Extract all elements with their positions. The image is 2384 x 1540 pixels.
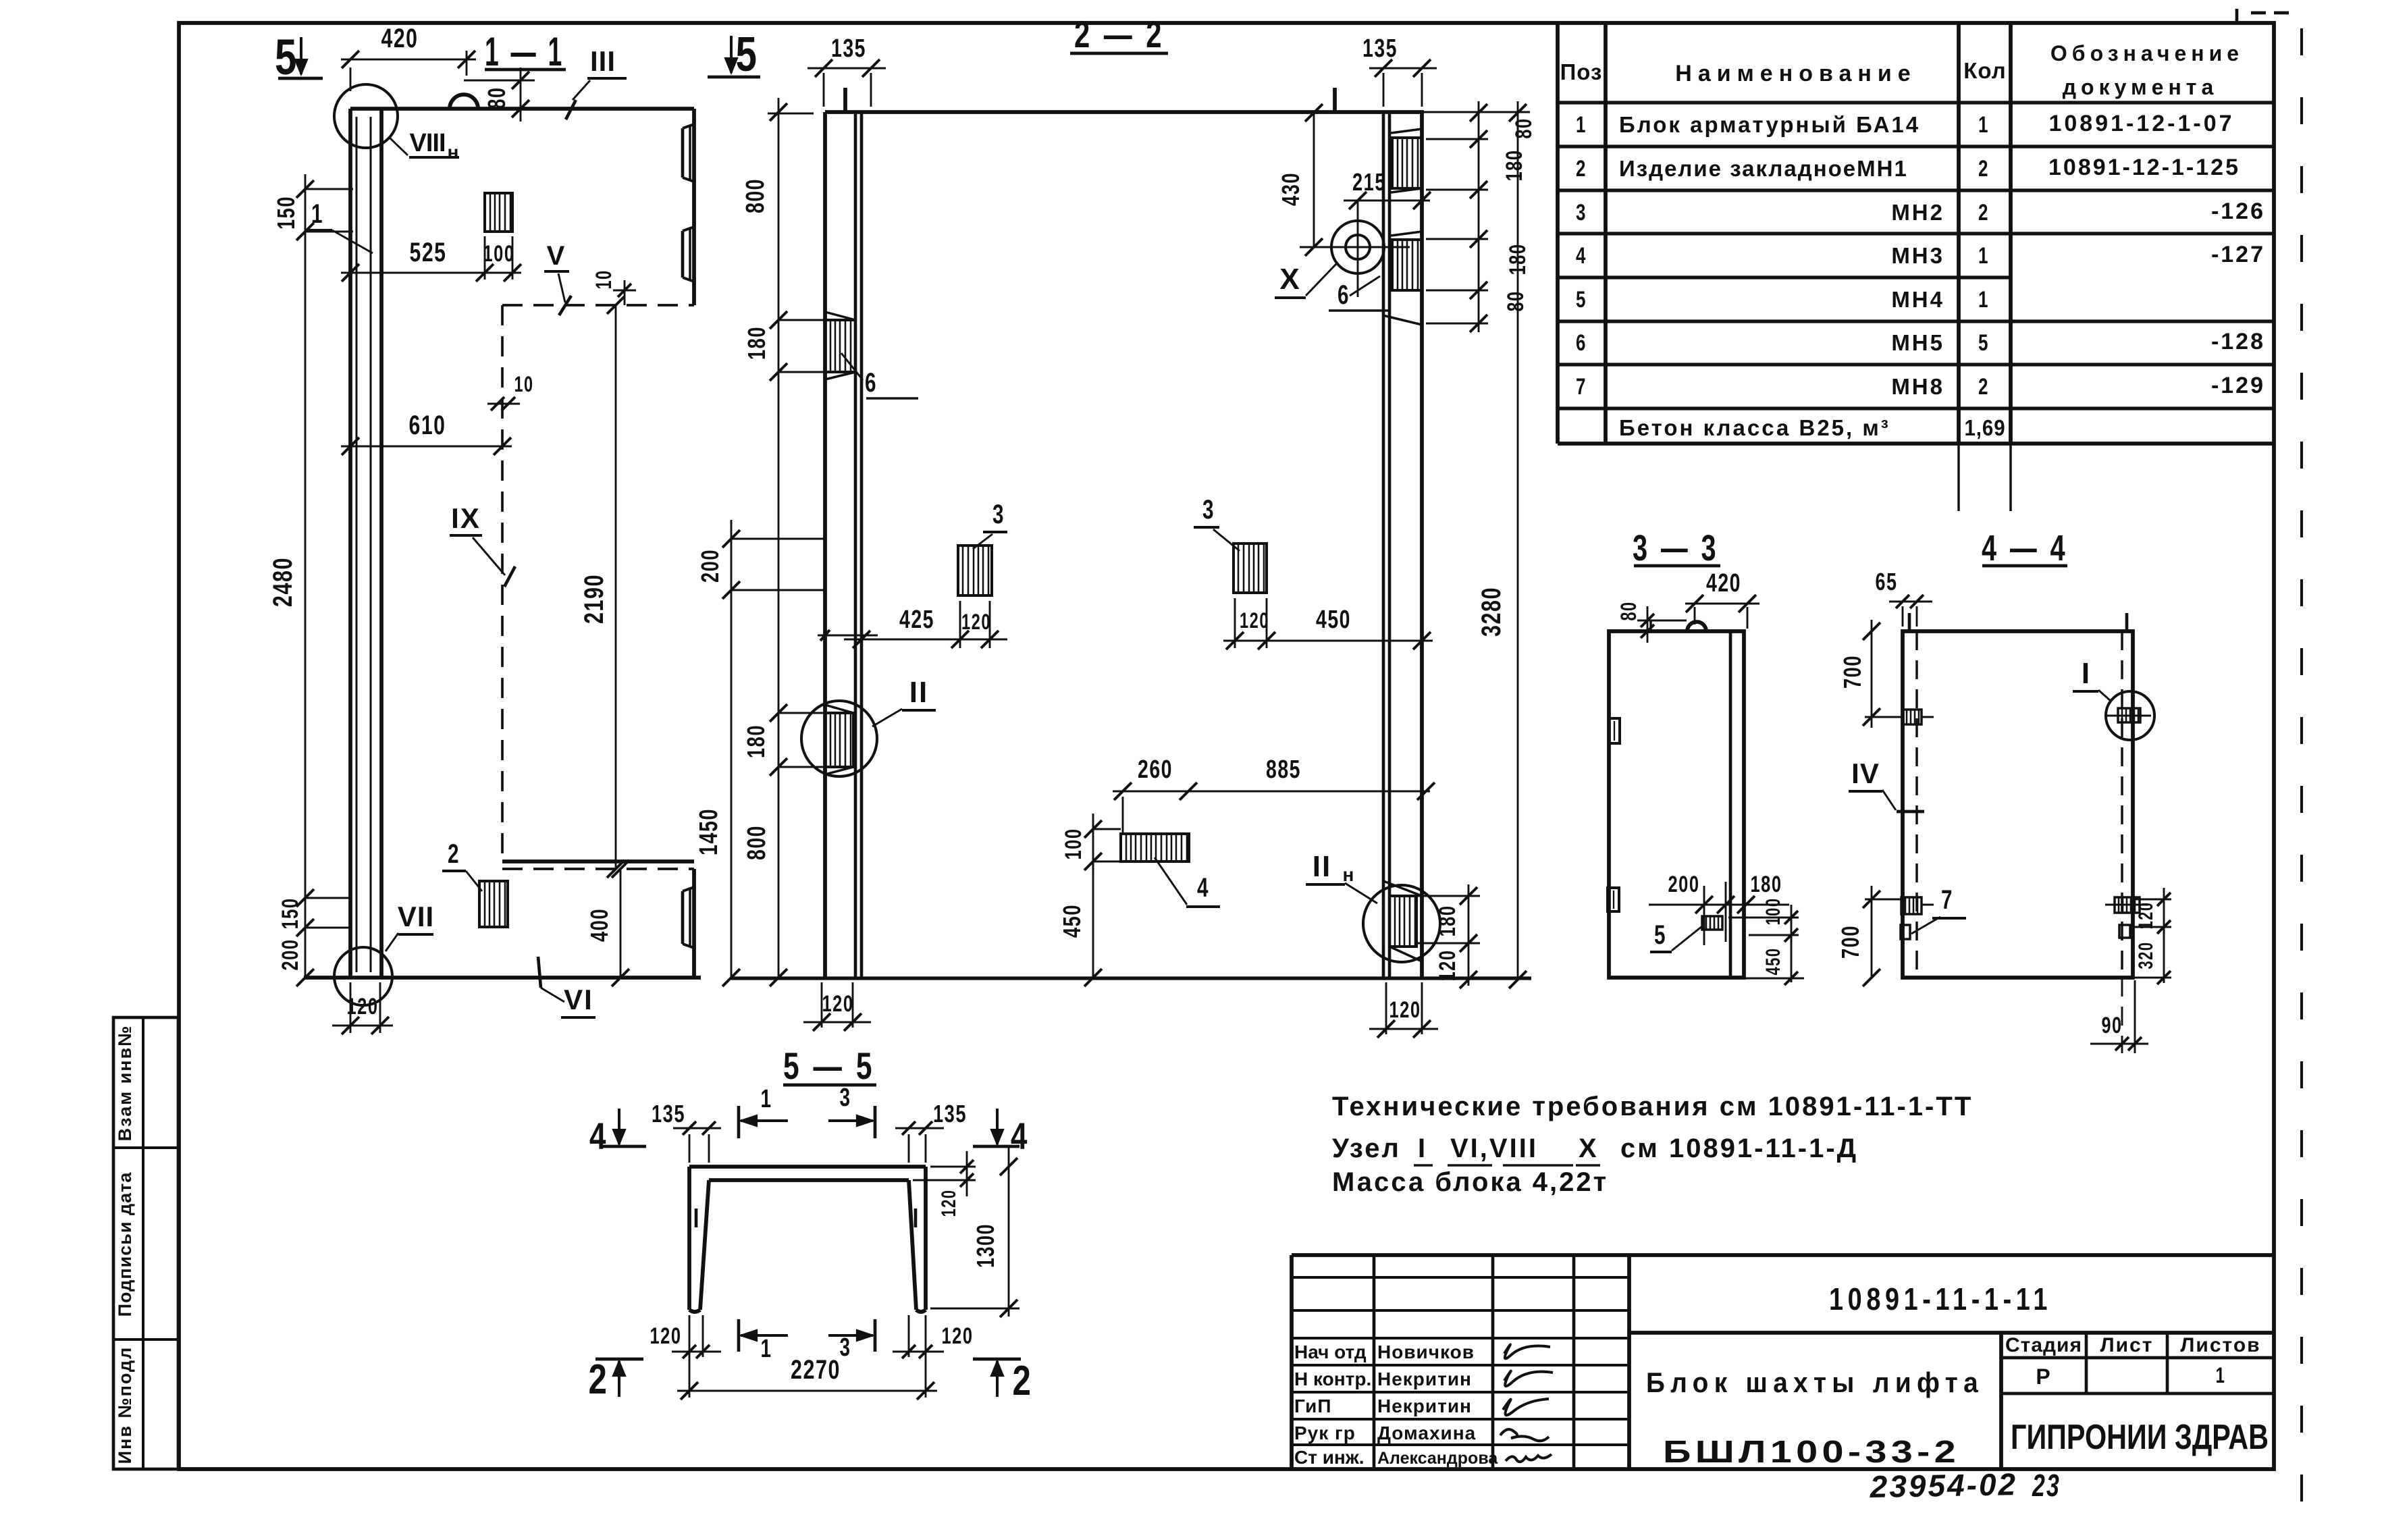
svg-text:80: 80 bbox=[1511, 118, 1537, 139]
view 1-1 door groove notch 1 bbox=[681, 128, 685, 178]
dim 10 recess top bbox=[624, 280, 626, 305]
svg-text:-127: -127 bbox=[2211, 242, 2265, 267]
view 2-2 left wall outer bbox=[823, 112, 827, 978]
svg-text:Н контр.: Н контр. bbox=[1294, 1369, 1371, 1389]
svg-text:2 — 2: 2 — 2 bbox=[1074, 13, 1165, 55]
svg-text:Инв №подл: Инв №подл bbox=[115, 1346, 135, 1464]
view 4-4 hidden line left dashed bbox=[1915, 631, 1917, 978]
view 2-2 left wall inner pair bbox=[854, 112, 857, 978]
svg-text:200: 200 bbox=[1668, 872, 1700, 897]
small plate left 4-4 bbox=[1901, 925, 1910, 939]
svg-text:VI,VIII: VI,VIII bbox=[1450, 1134, 1538, 1163]
svg-text:I: I bbox=[2082, 657, 2091, 690]
marker 2 up right bbox=[973, 1358, 1021, 1361]
svg-text:6: 6 bbox=[1576, 330, 1587, 356]
svg-text:Некритин: Некритин bbox=[1377, 1396, 1472, 1416]
dim 420 top bbox=[350, 68, 352, 91]
svg-text:Масса блока 4,22т: Масса блока 4,22т bbox=[1332, 1167, 1608, 1197]
svg-text:Некритин: Некритин bbox=[1377, 1369, 1472, 1389]
svg-text:МН5: МН5 bbox=[1891, 330, 1944, 355]
dim 450 3-3 bbox=[1791, 935, 1793, 982]
svg-text:Новичков: Новичков bbox=[1377, 1342, 1475, 1362]
svg-text:ГиП: ГиП bbox=[1294, 1396, 1332, 1416]
svg-text:120: 120 bbox=[822, 991, 854, 1017]
svg-text:V: V bbox=[547, 241, 566, 271]
svg-text:135: 135 bbox=[652, 1100, 685, 1127]
view 4-4 loop tick right bbox=[2125, 613, 2129, 631]
dim 1300 5-5 bbox=[1008, 1148, 1010, 1317]
svg-text:Поз: Поз bbox=[1560, 59, 1603, 84]
insert plate pos4 bbox=[1121, 834, 1189, 861]
svg-text:425: 425 bbox=[899, 606, 934, 634]
dim 10 recess side bbox=[487, 403, 520, 405]
dim 400 bbox=[620, 869, 622, 978]
svg-text:2: 2 bbox=[1978, 200, 1989, 225]
svg-text:3: 3 bbox=[1576, 200, 1587, 225]
svg-text:180: 180 bbox=[1751, 872, 1782, 897]
designation cell divider bbox=[1629, 1331, 2274, 1335]
dim 120 under right wall of 2-2 bbox=[1385, 982, 1387, 1034]
svg-text:Ст инж.: Ст инж. bbox=[1294, 1447, 1364, 1468]
svg-text:23: 23 bbox=[2032, 1468, 2061, 1503]
dim 100 plate pos4 bbox=[1093, 828, 1121, 830]
insert plate pos6 right wall lower bbox=[1392, 240, 1422, 290]
dim 120 right 4-4 bbox=[2134, 899, 2171, 901]
svg-text:1: 1 bbox=[761, 1085, 772, 1113]
dim 120 top right 5-5 bbox=[930, 1166, 976, 1168]
svg-text:120: 120 bbox=[650, 1323, 682, 1349]
svg-text:4 — 4: 4 — 4 bbox=[1982, 528, 2068, 568]
svg-text:Нач отд: Нач отд bbox=[1294, 1342, 1367, 1362]
svg-text:420: 420 bbox=[1706, 569, 1741, 598]
node circle I bbox=[2106, 691, 2154, 740]
svg-text:II: II bbox=[1313, 850, 1331, 883]
svg-text:80: 80 bbox=[483, 87, 510, 109]
svg-text:III: III bbox=[590, 45, 616, 77]
svg-text:3: 3 bbox=[840, 1333, 851, 1362]
svg-text:5: 5 bbox=[1576, 287, 1587, 313]
svg-text:Подписьи дата: Подписьи дата bbox=[115, 1172, 135, 1317]
node circle II-n bbox=[1363, 885, 1440, 962]
svg-text:Домахина: Домахина bbox=[1377, 1423, 1476, 1443]
svg-text:VII: VII bbox=[398, 901, 434, 932]
view 1-1 bottom wall hidden edge dashed bbox=[502, 868, 694, 870]
svg-text:3 — 3: 3 — 3 bbox=[1633, 528, 1719, 568]
svg-text:Взам инв№: Взам инв№ bbox=[115, 1025, 135, 1142]
svg-text:885: 885 bbox=[1266, 755, 1301, 784]
svg-text:150: 150 bbox=[272, 196, 300, 230]
dim 320 right 4-4 bbox=[2163, 927, 2165, 983]
underlines for node numerals bbox=[1414, 1164, 1433, 1166]
svg-text:260: 260 bbox=[1138, 755, 1173, 784]
insert plate pos6 left wall bbox=[825, 320, 855, 372]
svg-text:МН4: МН4 bbox=[1891, 287, 1944, 312]
svg-text:90: 90 bbox=[2102, 1013, 2123, 1038]
insert plate pos2 upper bbox=[485, 193, 512, 232]
dim 425 and 120 under left plate bbox=[959, 601, 961, 648]
view 5-5 top slab inner bbox=[709, 1178, 909, 1182]
plate lower right 4-4 bbox=[2115, 897, 2140, 913]
svg-text:Александрова: Александрова bbox=[1377, 1449, 1498, 1468]
insert plate pos6 right wall upper bbox=[1392, 138, 1422, 188]
svg-text:VIII: VIII bbox=[409, 129, 445, 157]
svg-text:450: 450 bbox=[1762, 948, 1784, 976]
dim 135 right 5-5 bbox=[908, 1134, 910, 1163]
svg-text:10891-12-1-125: 10891-12-1-125 bbox=[2048, 155, 2240, 180]
svg-text:800: 800 bbox=[743, 825, 771, 860]
svg-text:5: 5 bbox=[275, 29, 298, 85]
svg-text:Лист: Лист bbox=[2100, 1334, 2154, 1356]
view 3-3 inner face line bbox=[1729, 631, 1732, 978]
svg-text:6: 6 bbox=[1337, 280, 1350, 310]
view 1-1 right edge lower bbox=[692, 869, 696, 978]
svg-text:80: 80 bbox=[1616, 602, 1641, 621]
svg-text:430: 430 bbox=[1277, 172, 1304, 206]
svg-text:1: 1 bbox=[761, 1335, 772, 1363]
svg-text:800: 800 bbox=[741, 178, 770, 213]
svg-text:180: 180 bbox=[742, 724, 770, 758]
dim 2190 bbox=[615, 305, 617, 869]
svg-text:МН8: МН8 bbox=[1891, 374, 1944, 399]
dim 200 recess chain bbox=[731, 520, 733, 978]
dim 135 left 5-5 bbox=[689, 1134, 691, 1163]
insert plate pos3 right bbox=[1234, 543, 1267, 593]
svg-text:120: 120 bbox=[347, 994, 379, 1019]
view 1-1 hidden recess side dashed bbox=[501, 305, 504, 861]
svg-text:200: 200 bbox=[696, 549, 724, 583]
dim 430 bbox=[1313, 113, 1315, 247]
svg-text:Р: Р bbox=[2036, 1364, 2051, 1389]
svg-text:10891-11-1-11: 10891-11-1-11 bbox=[1829, 1281, 2052, 1317]
dim 135 left wall bbox=[823, 73, 825, 107]
svg-text:Изделие закладноеМН1: Изделие закладноеМН1 bbox=[1619, 156, 1908, 181]
svg-text:4: 4 bbox=[589, 1115, 607, 1157]
right dim chain of 2-2 upper bbox=[1478, 101, 1480, 332]
dim 180 at node II bbox=[778, 712, 825, 714]
svg-text:120: 120 bbox=[2135, 902, 2157, 930]
dim 700 top 4-4 bbox=[1871, 620, 1873, 728]
svg-text:120: 120 bbox=[1240, 608, 1269, 633]
svg-text:5: 5 bbox=[736, 28, 758, 82]
svg-text:610: 610 bbox=[409, 410, 446, 440]
svg-text:X: X bbox=[1279, 263, 1300, 296]
dim 200 and 180 3-3 bbox=[1703, 886, 1705, 945]
svg-text:120: 120 bbox=[961, 610, 991, 634]
dim 700 bottom 4-4 bbox=[1871, 886, 1873, 978]
view 2-2 top edge bbox=[825, 110, 1424, 114]
view 5-5 right leg foot bbox=[916, 1310, 926, 1312]
svg-text:5: 5 bbox=[1978, 330, 1989, 356]
svg-text:1: 1 bbox=[1978, 112, 1989, 138]
dim 120 and 450 under right plate bbox=[1234, 598, 1236, 648]
left stamp boxes outline bbox=[113, 1017, 178, 1469]
dim 525 and 100 bbox=[484, 236, 486, 280]
svg-text:180: 180 bbox=[1435, 905, 1460, 937]
view 1-1 right edge upper bbox=[692, 109, 696, 305]
view 5-5 left leg foot bbox=[689, 1310, 700, 1312]
stamp box divider 2 bbox=[113, 1338, 178, 1341]
svg-text:2: 2 bbox=[1013, 1358, 1032, 1404]
section arrow 1 bottom bbox=[737, 1319, 741, 1352]
dim 120 bottom left 5-5 bbox=[689, 1315, 691, 1357]
svg-text:IV: IV bbox=[1851, 758, 1880, 789]
marker 2 up left bbox=[595, 1358, 643, 1361]
svg-text:120: 120 bbox=[938, 1190, 960, 1217]
node circle VIII upper bbox=[334, 84, 398, 148]
dim 120 under left wall of 2-2 bbox=[821, 982, 823, 1028]
marker VI bbox=[538, 957, 541, 988]
svg-text:МН2: МН2 bbox=[1891, 200, 1944, 225]
svg-text:450: 450 bbox=[1316, 606, 1351, 634]
view 1-1 top edge bbox=[350, 107, 694, 111]
svg-text:1,69: 1,69 bbox=[1965, 415, 2006, 440]
svg-text:1450: 1450 bbox=[695, 808, 723, 855]
svg-text:180: 180 bbox=[1502, 150, 1527, 182]
signature squiggles bbox=[1504, 1345, 1550, 1359]
svg-text:2190: 2190 bbox=[579, 574, 609, 624]
svg-text:1: 1 bbox=[1576, 112, 1587, 138]
view 2-2 lifting loop tick right bbox=[1333, 88, 1337, 112]
insert plate pos5 bbox=[1702, 916, 1722, 930]
view 3-3 left edge plate lower bbox=[1608, 888, 1619, 911]
view 1-1 rebar line b bbox=[369, 117, 371, 972]
svg-text:I: I bbox=[1418, 1134, 1427, 1163]
marker 4 down right bbox=[996, 1109, 999, 1144]
small plate right 4-4 bbox=[2119, 925, 2130, 938]
svg-text:450: 450 bbox=[1058, 904, 1086, 938]
svg-text:4: 4 bbox=[1011, 1115, 1028, 1157]
view 2-2 lifting loop tick left bbox=[843, 88, 847, 112]
view 2-2 right wall outer bbox=[1420, 112, 1424, 978]
svg-text:н: н bbox=[1343, 864, 1356, 885]
insert plate at node II-n bbox=[1389, 896, 1416, 947]
dim 80 loop bbox=[464, 80, 535, 82]
view 3-3 outline bbox=[1609, 631, 1744, 978]
view 2-2 right wall inner pair bbox=[1382, 112, 1385, 978]
view 4-4 hidden line right dashed bbox=[2121, 631, 2123, 978]
svg-text:23954-02: 23954-02 bbox=[1869, 1466, 2017, 1504]
view 3-3 lifting loop bbox=[1687, 622, 1706, 631]
svg-text:3: 3 bbox=[1202, 495, 1215, 525]
svg-text:Узел: Узел bbox=[1332, 1134, 1401, 1163]
svg-text:2: 2 bbox=[1576, 156, 1587, 182]
svg-text:200: 200 bbox=[277, 939, 303, 971]
svg-text:2480: 2480 bbox=[268, 557, 298, 607]
dim 80 loop 3-3 bbox=[1637, 620, 1687, 622]
svg-text:ГИПРОНИИ ЗДРАВ: ГИПРОНИИ ЗДРАВ bbox=[2011, 1418, 2269, 1457]
svg-text:135: 135 bbox=[933, 1100, 967, 1127]
svg-text:5: 5 bbox=[1654, 920, 1666, 950]
svg-text:VI: VI bbox=[564, 984, 593, 1015]
svg-text:4: 4 bbox=[1197, 873, 1209, 903]
svg-text:1 — 1: 1 — 1 bbox=[485, 29, 564, 74]
svg-text:135: 135 bbox=[1362, 34, 1398, 63]
view 5-5 right leg inner taper bbox=[909, 1180, 916, 1310]
top-right registration dashes bbox=[2251, 11, 2266, 15]
svg-text:5 — 5: 5 — 5 bbox=[783, 1044, 875, 1087]
dim 215 bbox=[1344, 200, 1430, 202]
svg-text:120: 120 bbox=[1389, 997, 1421, 1023]
svg-text:БШЛ100-33-2: БШЛ100-33-2 bbox=[1663, 1434, 1960, 1469]
dim 610 bbox=[341, 446, 512, 448]
dim 180 at node II-n bbox=[1418, 895, 1480, 897]
svg-text:документа: документа bbox=[2063, 75, 2219, 99]
svg-text:см 10891-11-1-Д: см 10891-11-1-Д bbox=[1620, 1134, 1858, 1163]
dim 420 3-3 bbox=[1694, 607, 1696, 625]
view 5-5 plate tick right leg bbox=[914, 1209, 918, 1227]
view 3-3 top tick bbox=[1649, 620, 1651, 631]
svg-text:2: 2 bbox=[448, 839, 460, 869]
node circle VII lower bbox=[334, 947, 392, 1005]
stamp box divider 1 bbox=[113, 1146, 178, 1149]
svg-text:Технические требования см: Технические требования см 10891-11-1-ТТ bbox=[1332, 1092, 1973, 1121]
view 2-2 top edge extension right bbox=[1424, 111, 1530, 113]
view 1-1 bottom wall top edge bbox=[502, 859, 694, 864]
view 1-1 rebar line a bbox=[355, 117, 357, 972]
svg-text:100: 100 bbox=[483, 241, 515, 267]
svg-text:180: 180 bbox=[743, 326, 770, 360]
svg-text:1: 1 bbox=[1978, 287, 1989, 313]
insert plate pos3 left bbox=[958, 546, 992, 595]
svg-text:Рук гр: Рук гр bbox=[1294, 1423, 1356, 1443]
view 4-4 loop tick left bbox=[1908, 613, 1911, 631]
svg-text:525: 525 bbox=[410, 238, 447, 267]
view 1-1 left wall outer face bbox=[348, 109, 352, 978]
svg-text:X: X bbox=[1579, 1134, 1599, 1163]
svg-text:120: 120 bbox=[942, 1323, 974, 1349]
plate lower left 4-4 bbox=[1901, 897, 1922, 914]
svg-text:-128: -128 bbox=[2211, 329, 2265, 354]
node circle X bbox=[1331, 221, 1384, 273]
insert plate pos2 lower bbox=[479, 881, 508, 927]
view 4-4 outline bbox=[1903, 631, 2133, 978]
view 1-1 hidden recess top edge dashed bbox=[502, 304, 694, 307]
view 5-5 top slab outer bbox=[689, 1165, 926, 1169]
dim 450 below plate pos4 bbox=[1092, 861, 1094, 978]
view 1-1 lifting loop bbox=[450, 95, 478, 109]
svg-text:420: 420 bbox=[381, 24, 419, 53]
view 5-5 plate tick left leg bbox=[695, 1209, 698, 1227]
view 2-2 bottom edge bbox=[731, 976, 1531, 980]
svg-text:400: 400 bbox=[585, 908, 613, 942]
dim 120 bottom of 1-1 bbox=[350, 982, 352, 1033]
svg-text:2: 2 bbox=[1978, 156, 1989, 182]
svg-text:10891-12-1-07: 10891-12-1-07 bbox=[2048, 111, 2234, 136]
title block outline bbox=[1292, 1253, 2274, 1257]
dim 150 left top bbox=[304, 174, 307, 978]
view 3-3 left edge plate upper bbox=[1609, 718, 1620, 743]
svg-text:Стадия: Стадия bbox=[2005, 1334, 2082, 1356]
svg-text:700: 700 bbox=[1838, 655, 1866, 689]
svg-text:-129: -129 bbox=[2211, 373, 2265, 398]
svg-text:Кол: Кол bbox=[1963, 58, 2006, 83]
tick line mid wall bbox=[818, 635, 878, 637]
view 1-1 door groove notch 3 bbox=[681, 891, 685, 944]
dim 135 right wall bbox=[1383, 73, 1385, 107]
svg-text:120: 120 bbox=[1435, 950, 1460, 982]
svg-text:3: 3 bbox=[992, 500, 1005, 529]
section arrow 1 top bbox=[737, 1106, 741, 1138]
dim 150 left bottom bbox=[305, 897, 350, 899]
svg-text:3: 3 bbox=[840, 1084, 851, 1112]
svg-text:100: 100 bbox=[1762, 898, 1784, 926]
svg-text:100: 100 bbox=[1061, 828, 1086, 860]
svg-text:н: н bbox=[448, 142, 460, 163]
parts table grid bbox=[1558, 23, 2274, 511]
dim 100 3-3 bbox=[1728, 917, 1799, 919]
svg-text:7: 7 bbox=[1941, 885, 1953, 915]
svg-text:1: 1 bbox=[2216, 1363, 2226, 1387]
svg-text:150: 150 bbox=[277, 898, 303, 930]
dim 120 bottom right 5-5 bbox=[908, 1315, 910, 1357]
svg-text:7: 7 bbox=[1576, 374, 1587, 400]
svg-text:10: 10 bbox=[514, 372, 534, 396]
plate upper left 4-4 bbox=[1903, 710, 1922, 724]
svg-text:Листов: Листов bbox=[2180, 1334, 2260, 1356]
plate at node I bbox=[2118, 708, 2140, 722]
svg-text:1: 1 bbox=[1978, 243, 1989, 269]
left dim chain line of 2-2 bbox=[778, 98, 780, 978]
svg-text:Наименование: Наименование bbox=[1675, 61, 1916, 86]
view 5-5 right leg outer bbox=[924, 1167, 928, 1310]
dim 3280 bbox=[1517, 101, 1519, 980]
dim 800 upper left chain bbox=[778, 319, 825, 321]
svg-text:2270: 2270 bbox=[791, 1355, 841, 1385]
view 5-5 left leg inner taper bbox=[700, 1180, 709, 1310]
stadia list listov divider bbox=[1999, 1333, 2003, 1469]
svg-text:3280: 3280 bbox=[1477, 587, 1506, 637]
svg-text:Бетон класса В25, м³: Бетон класса В25, м³ bbox=[1619, 415, 1890, 440]
dim 2270 bbox=[677, 1390, 937, 1392]
node circle II bbox=[801, 701, 877, 776]
view 5-5 left leg outer bbox=[687, 1167, 691, 1310]
svg-text:II: II bbox=[909, 676, 928, 709]
svg-text:-126: -126 bbox=[2211, 198, 2265, 224]
svg-text:700: 700 bbox=[1836, 925, 1864, 959]
svg-text:Блок шахты лифта: Блок шахты лифта bbox=[1646, 1366, 1984, 1398]
view 1-1 left wall inner face bbox=[379, 109, 383, 978]
dim 90 bottom 4-4 bbox=[2121, 978, 2123, 1053]
svg-text:IX: IX bbox=[451, 502, 481, 534]
svg-text:Обозначение: Обозначение bbox=[2050, 41, 2244, 65]
svg-text:135: 135 bbox=[831, 34, 866, 63]
dim 800 lower left chain bbox=[770, 969, 787, 986]
insert plate at node II bbox=[825, 713, 853, 767]
svg-text:65: 65 bbox=[1876, 568, 1898, 595]
svg-text:6: 6 bbox=[865, 368, 877, 398]
svg-text:215: 215 bbox=[1352, 168, 1386, 196]
svg-text:80: 80 bbox=[1503, 291, 1529, 312]
svg-text:320: 320 bbox=[2135, 942, 2157, 970]
title block left horizontals bbox=[1292, 1276, 1629, 1279]
svg-text:10: 10 bbox=[591, 270, 616, 290]
svg-text:2: 2 bbox=[1978, 374, 1989, 400]
svg-text:Блок арматурный БА14: Блок арматурный БА14 bbox=[1619, 112, 1920, 137]
fold mark dashed line right bbox=[2300, 28, 2303, 1540]
title block verticals bbox=[1373, 1255, 1376, 1469]
svg-text:1300: 1300 bbox=[972, 1223, 999, 1268]
svg-text:4: 4 bbox=[1576, 243, 1587, 269]
view 1-1 door groove notch 2 bbox=[681, 231, 685, 277]
svg-text:2: 2 bbox=[589, 1356, 608, 1403]
view 1-1 bottom edge bbox=[304, 976, 701, 980]
svg-text:МН3: МН3 bbox=[1891, 243, 1944, 268]
stamp boxes divider column bbox=[142, 1017, 144, 1469]
dim 65 bbox=[1902, 606, 1904, 627]
dim 260 and 885 bbox=[1122, 797, 1124, 834]
